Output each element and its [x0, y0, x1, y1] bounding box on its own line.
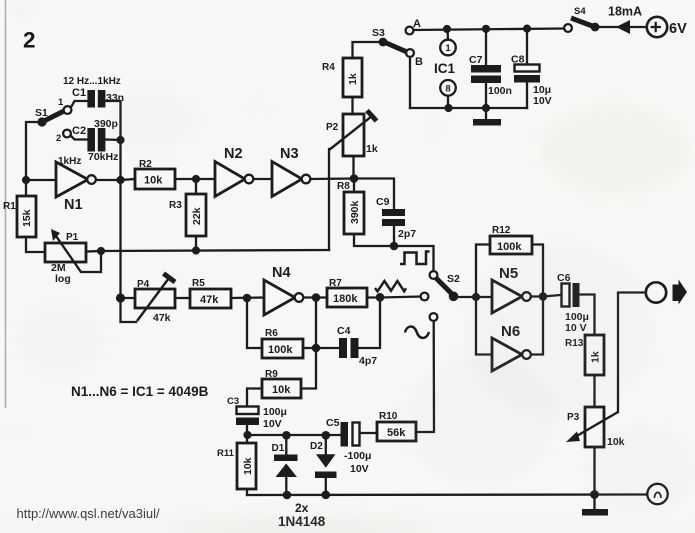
svg-text:R10: R10	[379, 411, 398, 422]
potentiometer P1	[45, 229, 86, 285]
svg-text:R2: R2	[139, 159, 152, 170]
svg-text:8: 8	[445, 83, 450, 94]
wire N1 input node to N1	[26, 179, 56, 181]
svg-text:100μ: 100μ	[263, 406, 287, 418]
wire C1 right to vertical	[105, 101, 121, 140]
resistor R6	[262, 328, 303, 358]
node N3 out P2 R8	[350, 174, 359, 183]
wire N6 out up to node	[531, 297, 543, 355]
wire R10 right up to S2 sine contact	[416, 321, 434, 432]
wire R12 left leg	[476, 245, 490, 298]
capacitor C1	[72, 87, 124, 108]
svg-text:C9: C9	[376, 196, 390, 208]
node N1 output	[116, 176, 124, 184]
wire vertical C-node to N1 output wire and down to P4 node	[119, 140, 121, 298]
svg-text:R6: R6	[265, 328, 278, 339]
svg-text:100k: 100k	[497, 241, 522, 253]
wire node to C4 left	[316, 347, 339, 349]
svg-text:IC1: IC1	[434, 61, 456, 76]
svg-text:N3: N3	[280, 146, 299, 162]
wire S3 pole to R4 top	[353, 42, 383, 58]
node clamp C3	[243, 431, 251, 439]
svg-text:P1: P1	[66, 232, 79, 243]
wire C8 top lead	[526, 29, 528, 64]
wire R9 left to C3 top	[247, 389, 262, 407]
svg-text:1: 1	[445, 43, 451, 54]
capacitor C9	[376, 196, 416, 240]
wire S4 pole to battery	[600, 26, 618, 28]
node at N1 input	[22, 176, 30, 184]
wire D1 bottom lead	[285, 477, 287, 495]
svg-text:2p7: 2p7	[398, 228, 416, 240]
wire D2 bottom lead	[325, 478, 327, 495]
wire C8 bottom lead	[526, 83, 528, 109]
svg-text:S1: S1	[35, 107, 48, 119]
wire R13 bottom to P3 top	[593, 375, 595, 407]
svg-text:D1: D1	[272, 443, 285, 454]
resistor R1	[3, 196, 36, 237]
svg-text:2: 2	[56, 133, 61, 144]
svg-text:R12: R12	[492, 225, 511, 236]
node N5 N6 output	[539, 292, 548, 301]
node D2 bottom	[322, 491, 331, 500]
resistor R3	[169, 194, 206, 236]
node 0V rail ground	[482, 104, 490, 112]
wire arrow to battery	[629, 26, 647, 28]
trianglewave symbol	[375, 281, 406, 291]
capacitor C2	[72, 118, 118, 163]
svg-text:10V: 10V	[263, 418, 282, 430]
potentiometer P4	[135, 274, 175, 325]
svg-text:4p7: 4p7	[359, 355, 377, 367]
page border line	[5, 0, 7, 408]
wire N3 out to node	[311, 177, 355, 180]
node D1 top	[282, 431, 291, 440]
wire P4 node to P4 left	[121, 297, 136, 299]
svg-text:10V: 10V	[350, 463, 369, 475]
wire N6 input leg	[476, 297, 492, 355]
resistor R4	[322, 58, 362, 97]
resistor R2	[135, 159, 175, 189]
svg-text:http://www.qsl.net/va3iul/: http://www.qsl.net/va3iul/	[17, 506, 160, 521]
resistor R10	[377, 411, 416, 441]
capacitor C4	[337, 325, 377, 367]
node 0V rail pin8	[444, 104, 452, 112]
node P1 bus	[97, 247, 105, 255]
switch S4	[564, 6, 599, 32]
svg-text:100k: 100k	[268, 344, 293, 356]
capacitor C7	[469, 54, 512, 97]
wire square node to S2 square contact	[394, 246, 434, 271]
resistor R9	[262, 369, 301, 398]
wire C3 bottom to clamp node	[246, 425, 248, 435]
wire S1 contact 1 to C1	[71, 101, 88, 108]
diode D1	[272, 443, 298, 477]
svg-text:R9: R9	[265, 369, 278, 380]
wire D1 top lead	[285, 435, 287, 455]
ic IC1 pin 8	[440, 80, 456, 96]
wire C4 right up to triangle node	[358, 298, 380, 349]
resistor R12	[490, 225, 532, 254]
wire R12 right leg	[532, 245, 543, 297]
resistor R11	[217, 443, 256, 489]
wire S1 pole to N1 input node	[26, 122, 41, 180]
wire frequency bus P1 to P2 wiper	[101, 250, 329, 251]
node R8 C9 square	[390, 242, 399, 251]
node R7 triangle	[376, 293, 385, 302]
svg-text:2x: 2x	[295, 501, 309, 515]
wire N1 output to R2	[96, 179, 136, 180]
wire C9 bottom lead	[393, 226, 395, 247]
wire P3 bottom to ground bus	[593, 447, 595, 495]
capacitor C5	[326, 417, 371, 475]
wire N2 out to N3 in	[254, 178, 273, 180]
wire ground stub right	[593, 495, 595, 510]
svg-text:C7: C7	[469, 54, 483, 66]
svg-text:R5: R5	[192, 278, 205, 289]
svg-text:10V: 10V	[533, 95, 552, 107]
wire R7 right to S2 triangle contact	[367, 297, 421, 298]
svg-text:R11: R11	[217, 448, 235, 459]
svg-text:180k: 180k	[333, 293, 358, 305]
svg-text:log: log	[55, 273, 71, 285]
wire R1 bottom to P1 left	[26, 237, 45, 252]
wire R2 right to N2 input	[175, 178, 215, 180]
node P4 input	[116, 293, 125, 302]
svg-text:390k: 390k	[349, 200, 361, 224]
svg-text:15k: 15k	[21, 209, 33, 227]
node N4 output	[312, 293, 321, 302]
squarewave symbol	[400, 252, 430, 265]
wire S3 contact B down to 0V rail	[409, 57, 411, 108]
ic IC1 pin 1	[440, 40, 456, 56]
wire node to C9 top	[354, 179, 394, 210]
ground symbol bottom	[582, 509, 608, 516]
resistor R13	[565, 335, 604, 375]
wire S1 contact 2 to C2	[71, 136, 88, 140]
op N6 inverter	[492, 323, 531, 371]
wire C6 right to R13 top	[579, 295, 595, 336]
switch S1	[35, 97, 71, 144]
wire clamp node bus to C5	[247, 434, 340, 436]
wire D2 top lead	[325, 435, 327, 454]
wire node down to R9 right	[301, 348, 316, 389]
svg-text:2: 2	[23, 28, 36, 53]
svg-text:S3: S3	[372, 27, 385, 39]
resistor R7	[327, 278, 367, 307]
wire R11 bottom to ground bus	[246, 489, 248, 495]
node supply rail C7	[482, 25, 490, 33]
svg-text:47k: 47k	[153, 312, 171, 324]
wire node to R1 top	[25, 180, 27, 196]
svg-text:22k: 22k	[191, 207, 203, 225]
wire bus up to P2 wiper diagonal	[328, 149, 330, 250]
svg-text:C1: C1	[72, 87, 86, 99]
potentiometer P3	[566, 407, 625, 448]
node R5 N4 input	[243, 294, 252, 303]
wire N5 out to node	[531, 295, 543, 297]
wire P1 wiper tail to bus node	[81, 251, 101, 272]
op N2 inverter	[215, 146, 253, 197]
node P3 ground	[590, 490, 599, 499]
svg-text:12 Hz...1kHz: 12 Hz...1kHz	[63, 76, 121, 87]
wire bottom ground bus	[247, 493, 647, 496]
node R3 bus	[192, 246, 200, 254]
svg-text:N4: N4	[272, 265, 291, 281]
wire N4 node down to R6 left	[247, 298, 262, 348]
svg-text:C8: C8	[511, 54, 525, 66]
wire R8 bottom to square node	[354, 234, 394, 246]
wire R3 bottom lead to bus	[195, 236, 197, 251]
svg-text:56k: 56k	[387, 427, 406, 439]
svg-text:N1: N1	[64, 197, 83, 213]
current arrow 18mA	[616, 20, 630, 34]
resistor R5	[190, 278, 231, 308]
node D2 top	[322, 431, 331, 440]
diode D2	[310, 441, 337, 478]
resistor R8	[337, 181, 364, 234]
wire node to C6	[543, 295, 561, 297]
wire C7 bottom lead	[485, 83, 487, 108]
output terminal	[646, 282, 666, 302]
wire C5 right to R10	[360, 432, 377, 434]
svg-text:N1...N6 = IC1 = 4049B: N1...N6 = IC1 = 4049B	[71, 384, 209, 399]
potentiometer P2	[326, 111, 378, 157]
svg-text:C3: C3	[227, 396, 239, 407]
capacitor C6	[557, 272, 589, 334]
wire IC1 pin1 lead	[446, 29, 449, 40]
svg-text:1k: 1k	[347, 73, 359, 85]
svg-text:6V: 6V	[669, 21, 687, 37]
output arrow	[673, 280, 688, 305]
wire N4 out to R7	[304, 296, 328, 298]
battery 6V	[647, 17, 687, 37]
wire P4 right to R5	[175, 297, 190, 299]
svg-text:N2: N2	[224, 146, 243, 162]
svg-text:1k: 1k	[366, 143, 378, 155]
svg-text:47k: 47k	[200, 294, 219, 306]
svg-text:-100μ: -100μ	[344, 450, 371, 462]
wire IC1 pin8 lead	[447, 96, 449, 109]
wire S3 contact A to supply rail	[413, 29, 564, 31]
wire R4 bottom to P2 top	[351, 97, 353, 114]
op N5 inverter	[492, 265, 531, 313]
wire 0V rail under IC1	[410, 107, 527, 109]
wire P1 right to bus	[86, 250, 101, 253]
svg-text:18mA: 18mA	[608, 5, 642, 19]
svg-text:10k: 10k	[242, 457, 254, 475]
capacitor C3	[227, 396, 287, 430]
node D1 bottom	[283, 491, 292, 500]
svg-text:C5: C5	[326, 417, 340, 429]
svg-text:C2: C2	[72, 125, 86, 137]
switch S2	[421, 271, 460, 321]
svg-text:D2: D2	[310, 441, 323, 452]
ground IC1	[473, 119, 501, 126]
node N5 N6 input	[472, 293, 480, 301]
wire R6 right to node	[303, 347, 316, 349]
switch S3	[372, 18, 423, 68]
op N3 inverter	[272, 146, 310, 197]
svg-text:70kHz: 70kHz	[88, 151, 118, 163]
wire S2 pole to N5 N6 inputs	[458, 296, 492, 298]
wire ground stub	[485, 108, 487, 119]
capacitor C8	[511, 54, 552, 108]
op N1 inverter	[56, 162, 96, 213]
wire C2 right to node	[105, 138, 121, 141]
node supply rail pin1	[443, 25, 451, 33]
node supply rail C8	[523, 25, 531, 33]
wire N4 out node down to R6 right node	[315, 298, 317, 349]
svg-text:100n: 100n	[488, 85, 512, 97]
svg-text:B: B	[415, 56, 423, 68]
wire C7 top lead	[485, 29, 487, 65]
svg-text:R4: R4	[322, 62, 335, 73]
svg-text:A: A	[413, 18, 421, 30]
svg-text:R1: R1	[3, 201, 16, 212]
svg-text:1: 1	[58, 97, 64, 108]
svg-text:R3: R3	[169, 200, 182, 211]
svg-text:R8: R8	[337, 181, 350, 192]
svg-text:10k: 10k	[144, 175, 163, 187]
svg-text:P4: P4	[137, 279, 150, 290]
wire R3 top lead	[195, 179, 197, 194]
node R2-R3	[192, 175, 200, 183]
op N4 inverter	[264, 265, 303, 315]
wire R5 right to N4 input	[231, 296, 264, 299]
wire P2 bottom to node	[352, 156, 354, 179]
sinewave symbol	[405, 327, 429, 338]
svg-text:10k: 10k	[272, 384, 291, 396]
wire output terminal to P3 wiper	[618, 293, 646, 413]
wire P4 node hook to wiper	[121, 298, 137, 322]
svg-text:P2: P2	[326, 122, 339, 133]
node C1-C2 right	[116, 136, 124, 144]
ground terminal circle	[647, 484, 667, 504]
wire node to R8 top	[353, 179, 355, 193]
node R6 C4 R9	[312, 344, 321, 353]
svg-text:S2: S2	[447, 273, 460, 285]
svg-text:R7: R7	[329, 278, 342, 289]
svg-text:S4: S4	[574, 6, 586, 17]
wire clamp node to R11 top	[246, 435, 248, 443]
svg-text:C4: C4	[337, 325, 351, 337]
scan noise patches (decorative)	[540, 105, 690, 195]
